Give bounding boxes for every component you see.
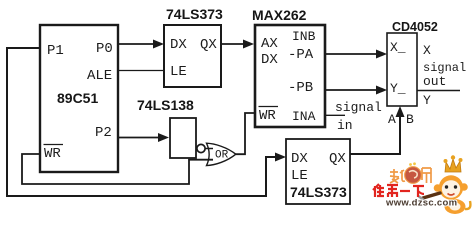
- wire P2 to 74LS138 with arrow: [118, 133, 169, 142]
- pin label DX (U4): [261, 52, 278, 68]
- watermark mascot (orange cartoon): [419, 155, 470, 214]
- wire WR wrap-around to OR gate lower input: [22, 154, 213, 184]
- pin label INA: [292, 109, 316, 124]
- svg-text:QX: QX: [329, 151, 346, 167]
- inverter bubble on 74LS138 output: [197, 144, 205, 152]
- pin label B (CD4052 select): [406, 112, 414, 127]
- svg-text:DX: DX: [261, 52, 278, 68]
- IC U1 name label 89C51: [57, 90, 98, 106]
- IC U6 74LS373 (bottom latch) block: [286, 139, 350, 204]
- watermark text www.dzsc.com: [385, 198, 457, 209]
- wire U6 QX up to CD4052 A/B select with arrow: [350, 106, 405, 154]
- svg-text:INA: INA: [292, 109, 316, 124]
- svg-text:DX: DX: [170, 37, 187, 53]
- pin label ALE: [87, 68, 112, 84]
- wire Y output stub: [417, 90, 460, 92]
- pin label P2: [95, 125, 112, 141]
- wire P0 to U2 DX with arrow: [118, 40, 164, 49]
- pin label DX (U2): [170, 37, 187, 53]
- watermark logo 找IC片 (orange outlined): [390, 162, 431, 183]
- IC U3 74LS138 block: [170, 118, 196, 158]
- pin label LE (U2): [170, 64, 187, 80]
- pin label -PA: [288, 47, 314, 63]
- pin label A (CD4052 select): [388, 112, 396, 127]
- pin label LE (U6): [291, 168, 308, 184]
- svg-text:OR: OR: [215, 150, 229, 162]
- svg-text:WR: WR: [44, 146, 61, 162]
- svg-text:Y_: Y_: [390, 81, 406, 96]
- svg-text:P2: P2: [95, 125, 112, 141]
- svg-text:A: A: [388, 112, 396, 127]
- svg-text:-PA: -PA: [288, 47, 314, 63]
- svg-text:out: out: [423, 74, 446, 89]
- svg-text:signal: signal: [423, 61, 466, 75]
- IC U2 74LS373 block: [164, 25, 221, 87]
- svg-text:LE: LE: [291, 168, 308, 184]
- svg-text:-PB: -PB: [288, 80, 313, 96]
- net label Y output: [423, 93, 431, 108]
- svg-text:QX: QX: [200, 37, 217, 53]
- pin label Y_: [390, 81, 406, 96]
- IC U5 CD4052 block: [387, 33, 417, 106]
- wire MAX262 PB to CD4052 Y_ with arrow: [325, 86, 387, 95]
- wire U2 QX to MAX262 AX/DX with arrow: [221, 40, 254, 49]
- svg-text:MAX262: MAX262: [252, 7, 307, 23]
- svg-text:X_: X_: [390, 40, 406, 55]
- svg-text:DX: DX: [291, 151, 308, 167]
- net label X signal out: [423, 43, 466, 89]
- svg-text:ALE: ALE: [87, 68, 112, 84]
- wire MAX262 PA to CD4052 X_ with arrow: [325, 50, 387, 59]
- pin label -PB: [288, 80, 313, 96]
- svg-text:Y: Y: [423, 93, 431, 108]
- wire ALE to U2 LE: [118, 70, 164, 72]
- wire P1 wrap-around to U6 DX (net P1 bus): [7, 48, 286, 196]
- svg-text:WR: WR: [259, 108, 276, 124]
- svg-text:in: in: [337, 118, 353, 133]
- svg-text:INB: INB: [292, 29, 316, 44]
- IC U6 name label 74LS373: [290, 184, 347, 200]
- IC U1 89C51 block: [40, 25, 118, 172]
- pin label P0: [96, 41, 113, 57]
- pin label AX: [261, 36, 278, 52]
- svg-text:www.dzsc.com: www.dzsc.com: [385, 198, 457, 209]
- net label signal in: [335, 100, 382, 133]
- svg-text:X: X: [423, 43, 431, 58]
- wire 74LS138 bubble to OR gate input: [205, 148, 213, 150]
- IC U3 74LS138 title: [137, 97, 194, 113]
- pin label WR (active low): [44, 145, 64, 163]
- pin label WR of MAX262 (active low): [259, 107, 279, 125]
- svg-text:B: B: [406, 112, 414, 127]
- pin label INB: [292, 29, 316, 44]
- svg-text:P0: P0: [96, 41, 113, 57]
- pin label QX (U6): [329, 151, 346, 167]
- pin label DX (U6): [291, 151, 308, 167]
- svg-text:LE: LE: [170, 64, 187, 80]
- watermark text 维库一下 (red CJK strokes): [373, 184, 424, 197]
- svg-text:CD4052: CD4052: [392, 20, 438, 34]
- svg-text:signal: signal: [335, 100, 382, 115]
- pin label QX (U2): [200, 37, 217, 53]
- pin label P1: [47, 43, 64, 59]
- IC U4 MAX262 title: [252, 7, 307, 23]
- IC U5 CD4052 title: [392, 20, 438, 34]
- svg-text:74LS373: 74LS373: [290, 184, 347, 200]
- pin label X_: [390, 40, 406, 55]
- svg-text:74LS373: 74LS373: [166, 6, 223, 22]
- OR gate G1: [207, 143, 236, 165]
- wire INA input stub (signal in): [325, 114, 345, 116]
- IC U4 MAX262 block: [255, 25, 325, 127]
- svg-text:AX: AX: [261, 36, 278, 52]
- svg-text:89C51: 89C51: [57, 90, 98, 106]
- wire OR output up to MAX262 WR: [236, 113, 255, 154]
- IC U2 74LS373 (top latch) title: [166, 6, 223, 22]
- svg-text:P1: P1: [47, 43, 64, 59]
- svg-text:74LS138: 74LS138: [137, 97, 194, 113]
